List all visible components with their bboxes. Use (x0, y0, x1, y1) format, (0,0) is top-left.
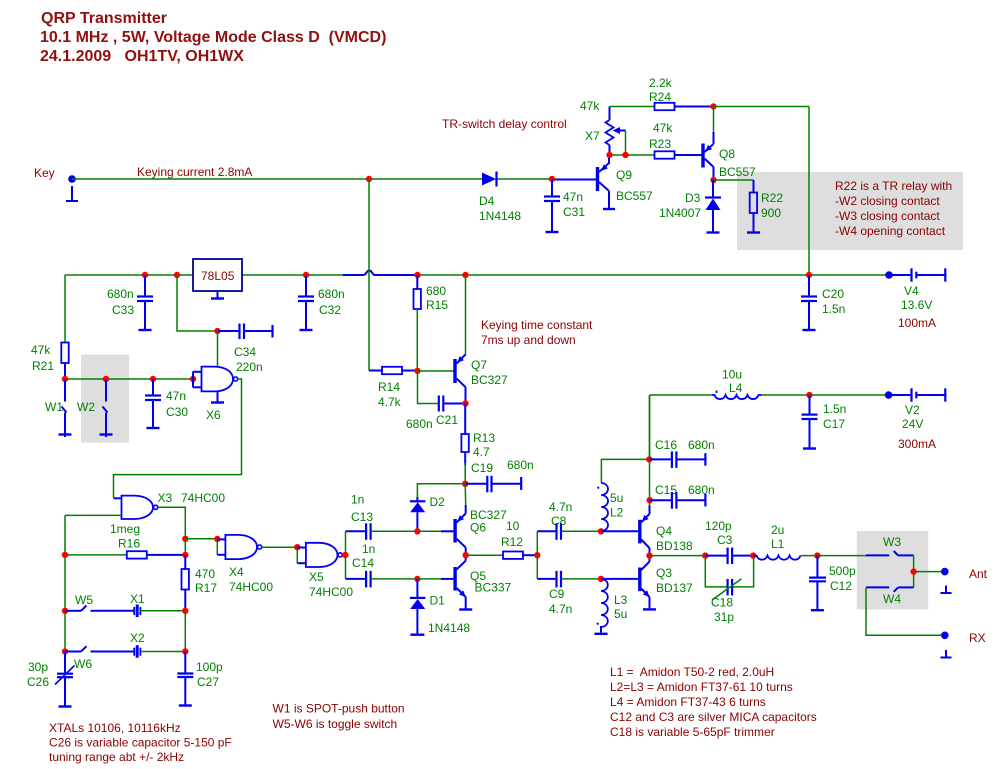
transistor Q5 BC337 (455, 555, 511, 609)
node W6 junction left (62, 648, 68, 654)
node Q8 collector junction (710, 177, 716, 183)
crystal X1 (100, 592, 185, 617)
svg-text:680n: 680n (688, 483, 715, 497)
svg-text:R21: R21 (32, 359, 54, 373)
svg-text:W3: W3 (883, 535, 901, 549)
node Ant terminal (941, 567, 988, 581)
svg-text:XTALs 10106, 10116kHz: XTALs 10106, 10116kHz (49, 721, 181, 735)
svg-text:V4: V4 (904, 284, 919, 298)
svg-text:R12: R12 (501, 535, 523, 549)
svg-text:BD138: BD138 (656, 539, 693, 553)
svg-text:1N4148: 1N4148 (428, 621, 470, 635)
wire right vertical to rail (808, 107, 810, 276)
svg-text:10: 10 (506, 519, 520, 533)
wire key branch vertical x369 (368, 179, 370, 371)
svg-text:W5: W5 (75, 593, 93, 607)
node C34 junction (214, 328, 220, 334)
svg-text:Ant: Ant (969, 567, 988, 581)
node Ant junction (910, 568, 916, 574)
node rail R15 (414, 272, 420, 278)
wire X6 output feedback to X3 (114, 379, 242, 498)
variable capacitor C18 31p (711, 579, 741, 624)
wire R12 junction branch (536, 531, 538, 579)
node C3 right junction (750, 552, 756, 558)
gate X5 74HC00 (297, 543, 353, 599)
node C21/R13 junction (462, 400, 468, 406)
svg-text:X1: X1 (130, 592, 145, 606)
svg-text:X7: X7 (585, 129, 600, 143)
wire Q7 base (418, 370, 454, 372)
svg-text:680n: 680n (406, 417, 433, 431)
resistor R17 470 (182, 555, 218, 611)
gray box around W3/W4 (857, 531, 929, 610)
svg-text:BD137: BD137 (656, 581, 693, 595)
node R12 right junction (534, 552, 540, 558)
svg-text:X4: X4 (229, 565, 244, 579)
svg-text:L2: L2 (610, 506, 624, 520)
svg-text:5u: 5u (614, 607, 627, 621)
node X5 output junction (342, 552, 348, 558)
svg-text:C32: C32 (319, 303, 341, 317)
svg-text:47n: 47n (563, 190, 583, 204)
node rail 78L05 branch (174, 272, 180, 278)
wire C13 line to Q6 base (417, 530, 453, 532)
node X7 wiper junction (622, 152, 628, 158)
svg-text:C3: C3 (717, 533, 733, 547)
resistor R24 2.2k (649, 76, 714, 110)
svg-text:W4: W4 (883, 592, 901, 606)
svg-text:BC557: BC557 (719, 165, 756, 179)
gray relay note box (737, 172, 963, 250)
node D2/C13 junction (414, 528, 420, 534)
capacitor C15 680n (650, 483, 715, 509)
capacitor C16 680n (649, 438, 714, 468)
svg-text:C31: C31 (563, 205, 585, 219)
battery V4 13.6V (889, 268, 945, 330)
wire to Ant (914, 571, 945, 573)
wire L3 junction to Q3 base (601, 578, 638, 580)
wire C18 branch (705, 556, 753, 587)
wire W3/W4 right vertical (913, 555, 915, 587)
svg-text:D1: D1 (430, 594, 446, 608)
svg-text:120p: 120p (705, 519, 732, 533)
resistor R14 4.7k (369, 367, 418, 409)
node X7 bottom junction (606, 152, 612, 158)
svg-text:680n: 680n (318, 287, 345, 301)
label XTALs note (49, 721, 232, 764)
diode D4 1N4148 (479, 172, 521, 224)
svg-text:4.7k: 4.7k (378, 395, 402, 409)
svg-text:470: 470 (195, 567, 215, 581)
svg-text:10u: 10u (722, 368, 742, 382)
capacitor C19 680n (465, 458, 534, 492)
svg-text:24.1.2009 OH1TV, OH1WX: 24.1.2009 OH1TV, OH1WX (40, 48, 244, 65)
node X6 input junction (190, 376, 196, 382)
svg-text:L1: L1 (771, 537, 785, 551)
transistor Q7 BC327 (455, 275, 508, 404)
wire W4 left down to RX (866, 587, 941, 635)
node C17 junction (806, 392, 812, 398)
capacitor C27 100p (177, 652, 223, 706)
trimmer X7 47k (580, 99, 626, 153)
wire X3 lower input from left rail (65, 514, 122, 516)
resistor R12 10 (466, 519, 538, 559)
node L3 top junction (598, 576, 604, 582)
node C15 junction (647, 497, 653, 503)
svg-text:Q9: Q9 (616, 168, 632, 182)
node R16 left junction (62, 552, 68, 558)
switch W5 (65, 593, 100, 611)
svg-text:74HC00: 74HC00 (309, 585, 353, 599)
svg-text:R16: R16 (118, 537, 140, 551)
svg-text:680n: 680n (688, 438, 715, 452)
svg-text:L1 = Amidon T50-2 red, 2.0uH: L1 = Amidon T50-2 red, 2.0uH (610, 665, 774, 679)
label keying time constant (481, 318, 593, 347)
inductor L1 2u (753, 523, 817, 560)
svg-text:2.2k: 2.2k (649, 76, 673, 90)
svg-text:C27: C27 (197, 675, 219, 689)
svg-text:L4: L4 (729, 381, 743, 395)
gray box around W2 (81, 355, 129, 443)
resistor R13 4.7 (461, 404, 495, 485)
svg-text:D3: D3 (685, 191, 701, 205)
svg-text:C21: C21 (436, 413, 458, 427)
variable capacitor C26 30p (27, 652, 75, 707)
svg-text:BC557: BC557 (616, 189, 653, 203)
wire Q4 emitter vertical (649, 395, 651, 506)
node Key (34, 166, 76, 183)
svg-text:QRP Transmitter: QRP Transmitter (41, 10, 167, 27)
node X5 input junction (294, 544, 300, 550)
transistor Q9 BC557 (598, 155, 654, 209)
node C12 junction (814, 552, 820, 558)
svg-text:C9: C9 (549, 587, 565, 601)
svg-text:100mA: 100mA (898, 316, 936, 330)
capacitor C32 680n (298, 275, 345, 330)
node RX terminal (941, 631, 986, 645)
node C30 junction (150, 376, 156, 382)
svg-text:-W3 closing contact: -W3 closing contact (835, 209, 940, 223)
wire output to C3 (650, 555, 706, 557)
svg-text:D4: D4 (479, 194, 495, 208)
svg-text:100p: 100p (196, 660, 223, 674)
node W5 junction left (62, 608, 68, 614)
svg-text:BC327: BC327 (471, 373, 508, 387)
svg-text:X3: X3 (158, 491, 173, 505)
svg-text:L3: L3 (614, 593, 628, 607)
svg-text:1n: 1n (351, 493, 364, 507)
svg-text:7ms up and down: 7ms up and down (481, 333, 576, 347)
wire Q8 collector to R22 (714, 179, 754, 181)
svg-text:1n: 1n (362, 542, 375, 556)
svg-text:1.5n: 1.5n (822, 302, 845, 316)
svg-text:1N4007: 1N4007 (659, 206, 701, 220)
capacitor C20 1.5n (801, 275, 845, 330)
svg-text:Q6: Q6 (470, 521, 486, 535)
node junction R24/Q8 (710, 103, 716, 109)
wire C14 line to Q5 base (417, 578, 453, 580)
svg-text:C12: C12 (830, 579, 852, 593)
capacitor C3 120p (705, 519, 753, 564)
svg-text:C34: C34 (234, 345, 256, 359)
svg-text:-W2 closing contact: -W2 closing contact (835, 194, 940, 208)
capacitor C8 4.7n (537, 500, 601, 540)
inductor L4 10u (712, 368, 810, 400)
svg-text:47k: 47k (580, 99, 600, 113)
svg-text:C20: C20 (822, 287, 844, 301)
svg-text:500p: 500p (829, 564, 856, 578)
node X4 input junction (214, 536, 220, 542)
ground under RX (941, 650, 952, 658)
node V4 terminal (885, 271, 893, 279)
capacitor C12 500p (809, 556, 856, 611)
node L2 bottom junction (598, 528, 604, 534)
gate X4 74HC00 (217, 535, 273, 594)
node V2 terminal (885, 391, 893, 399)
svg-text:C33: C33 (112, 303, 134, 317)
diode D3 1N4007 (659, 180, 721, 233)
switch W3 (866, 535, 914, 555)
wire Q9 emitter line to R23 (608, 154, 655, 156)
svg-text:24V: 24V (902, 417, 923, 431)
node X1 right junction (182, 608, 188, 614)
svg-text:C17: C17 (823, 417, 845, 431)
node junction C31 (549, 176, 555, 182)
resistor R23 47k (649, 121, 702, 159)
svg-text:tuning range abt +/- 2kHz: tuning range abt +/- 2kHz (49, 750, 184, 764)
svg-text:W5-W6 is toggle switch: W5-W6 is toggle switch (273, 717, 398, 731)
node X3 output junction upper (182, 536, 188, 542)
svg-text:X5: X5 (309, 570, 324, 584)
svg-text:W6: W6 (74, 657, 92, 671)
capacitor C34 220n (218, 324, 273, 375)
transistor Q3 BD137 (640, 556, 693, 610)
wire X3 output down (158, 507, 185, 555)
svg-text:C8: C8 (551, 514, 567, 528)
svg-text:V2: V2 (905, 403, 920, 417)
wire crossover hop at rail (365, 271, 375, 275)
svg-text:TR-switch delay control: TR-switch delay control (442, 117, 567, 131)
wire V2 line (650, 394, 713, 396)
svg-text:Key: Key (34, 166, 55, 180)
resistor R21 47k (31, 275, 69, 379)
svg-text:C19: C19 (471, 461, 493, 475)
svg-text:74HC00: 74HC00 (229, 580, 273, 594)
svg-text:1.5n: 1.5n (823, 402, 846, 416)
diode D1 1N4148 (410, 579, 470, 635)
title text (40, 10, 386, 65)
gate X6 74HC00 (193, 367, 238, 422)
switch W1 (45, 379, 72, 437)
svg-text:R14: R14 (378, 380, 400, 394)
svg-text:47n: 47n (166, 389, 186, 403)
svg-text:Q8: Q8 (719, 147, 735, 161)
node R16/R17 junction (182, 552, 188, 558)
wire X3 output to X4 input (185, 538, 217, 540)
svg-text:L2=L3 = Amidon FT37-61 10 turn: L2=L3 = Amidon FT37-61 10 turns (610, 680, 793, 694)
svg-text:74HC00: 74HC00 (181, 491, 225, 505)
svg-text:X2: X2 (130, 631, 145, 645)
svg-text:R23: R23 (649, 137, 671, 151)
svg-text:220n: 220n (236, 360, 263, 374)
svg-text:BC337: BC337 (475, 581, 512, 595)
ground under Ant (941, 586, 952, 594)
node rail C32 (303, 272, 309, 278)
svg-text:C15: C15 (655, 483, 677, 497)
svg-text:W1: W1 (45, 400, 63, 414)
svg-text:680n: 680n (507, 458, 534, 472)
node D1/C14 junction (414, 576, 420, 582)
svg-text:C12 and C3 are silver MICA cap: C12 and C3 are silver MICA capacitors (610, 710, 817, 724)
wire X7 top to R24 (610, 106, 655, 108)
wire 78L05 branch down to C34 (177, 275, 216, 331)
svg-text:47k: 47k (653, 121, 673, 135)
wire key line (72, 178, 482, 180)
svg-text:47k: 47k (31, 343, 51, 357)
svg-text:W2: W2 (77, 400, 95, 414)
wire D4 to Q9 base (498, 178, 598, 181)
svg-text:4.7n: 4.7n (549, 602, 572, 616)
svg-text:Q3: Q3 (656, 566, 672, 580)
wire V2 line left vertical (649, 395, 651, 459)
svg-text:300mA: 300mA (898, 437, 936, 451)
svg-text:4.7n: 4.7n (549, 500, 572, 514)
capacitor C9 4.7n (537, 571, 601, 616)
resistor R15 680 (414, 275, 449, 371)
svg-text:W1 is SPOT-push button: W1 is SPOT-push button (273, 702, 405, 716)
inductor L3 5u (595, 579, 628, 634)
transistor Q4 BD138 (640, 505, 693, 556)
svg-text:4.7: 4.7 (473, 445, 490, 459)
svg-text:Keying time constant: Keying time constant (481, 318, 593, 332)
capacitor C13 1n (346, 493, 418, 540)
svg-text:13.6V: 13.6V (901, 298, 932, 312)
inductor L2 5u (598, 459, 650, 531)
svg-text:10.1 MHz , 5W, Voltage Mode Cl: 10.1 MHz , 5W, Voltage Mode Class D (VMC… (40, 29, 386, 46)
capacitor C33 680n (107, 275, 153, 330)
capacitor C17 1.5n (802, 395, 847, 449)
svg-text:680n: 680n (107, 287, 134, 301)
node Q4/Q3 output junction (646, 552, 652, 558)
svg-text:C16: C16 (655, 438, 677, 452)
svg-text:L4 = Amidon FT37-43 6 turns: L4 = Amidon FT37-43 6 turns (610, 695, 766, 709)
battery V2 24V (889, 388, 946, 451)
capacitor C31 47n (544, 179, 585, 232)
gate X3 74HC00 (114, 491, 226, 519)
svg-text:-W4 opening contact: -W4 opening contact (835, 224, 946, 238)
diode D2 (410, 495, 445, 531)
wire C34 junction to X6 power pin (217, 331, 219, 366)
svg-text:1N4148: 1N4148 (479, 209, 521, 223)
node C16 junction (646, 456, 652, 462)
switch W2 (77, 379, 113, 437)
svg-text:X6: X6 (206, 408, 221, 422)
wire X6 input line (65, 378, 193, 380)
switch W6 (65, 646, 100, 671)
svg-text:1meg: 1meg (110, 522, 140, 536)
crystal X2 (100, 631, 185, 658)
svg-text:R17: R17 (195, 581, 217, 595)
svg-text:Q4: Q4 (656, 524, 672, 538)
relay note text (835, 179, 952, 238)
capacitor C21 680n (406, 396, 466, 432)
svg-text:C26 is variable capacitor 5-15: C26 is variable capacitor 5-150 pF (49, 736, 232, 750)
svg-text:C30: C30 (166, 405, 188, 419)
resistor R22 900 (747, 180, 783, 233)
svg-text:D2: D2 (430, 495, 446, 509)
svg-text:R13: R13 (473, 431, 495, 445)
capacitor C14 1n (346, 542, 418, 587)
wire R17 to X2 vertical (184, 611, 186, 652)
wire L2 junction to Q4 base (601, 530, 638, 532)
svg-text:R22: R22 (761, 191, 783, 205)
wire left oscillator vertical (64, 515, 66, 651)
svg-text:RX: RX (969, 631, 986, 645)
svg-text:Keying current 2.8mA: Keying current 2.8mA (137, 165, 252, 179)
capacitor C30 47n (145, 379, 188, 428)
svg-text:C26: C26 (27, 675, 49, 689)
node C19 junction (462, 481, 468, 487)
label inductor notes (610, 665, 817, 739)
wire C12 to W3 (817, 555, 866, 557)
transistor Q6 BC327 (455, 484, 507, 555)
svg-text:C14: C14 (352, 556, 374, 570)
svg-text:R15: R15 (426, 298, 448, 312)
svg-text:680: 680 (426, 284, 446, 298)
wire X5 output branch (343, 531, 346, 579)
transistor Q8 BC557 (703, 107, 756, 181)
switch W4 (866, 587, 914, 606)
svg-text:900: 900 (761, 206, 781, 220)
wire X4 output to X5 (262, 546, 297, 548)
node rail C33 (142, 272, 148, 278)
wire D2 top link (417, 484, 465, 500)
svg-text:2u: 2u (771, 523, 784, 537)
node junction key/vertical (366, 176, 372, 182)
wire 13.6V rail (65, 274, 889, 276)
node W1 junction (62, 376, 68, 382)
node X2 right junction (182, 648, 188, 654)
resistor R16 1meg (65, 522, 185, 559)
wire R24 junction to right vertical (714, 106, 810, 108)
regulator 78L05 (193, 259, 242, 299)
label W1/W5 note (273, 702, 405, 732)
svg-text:C13: C13 (351, 510, 373, 524)
node Q6/Q5 collector junction (463, 552, 469, 558)
wire C17 to V2 (810, 394, 890, 396)
node W2 junction (103, 376, 109, 382)
svg-text:5u: 5u (610, 491, 623, 505)
node R14/Q7 base junction (414, 368, 420, 374)
svg-text:78L05: 78L05 (201, 269, 235, 283)
svg-text:31p: 31p (714, 610, 734, 624)
node rail Q7 emitter (462, 272, 468, 278)
ground under Key (66, 186, 78, 201)
wire R14 junction down to C21 (418, 371, 439, 404)
svg-text:R22 is a TR relay with: R22 is a TR relay with (835, 179, 952, 193)
node rail C20 (806, 272, 812, 278)
svg-text:30p: 30p (28, 660, 48, 674)
svg-text:C18 is variable 5-65pF trimmer: C18 is variable 5-65pF trimmer (610, 725, 775, 739)
node C3 left junction (702, 552, 708, 558)
svg-text:Q7: Q7 (471, 358, 487, 372)
